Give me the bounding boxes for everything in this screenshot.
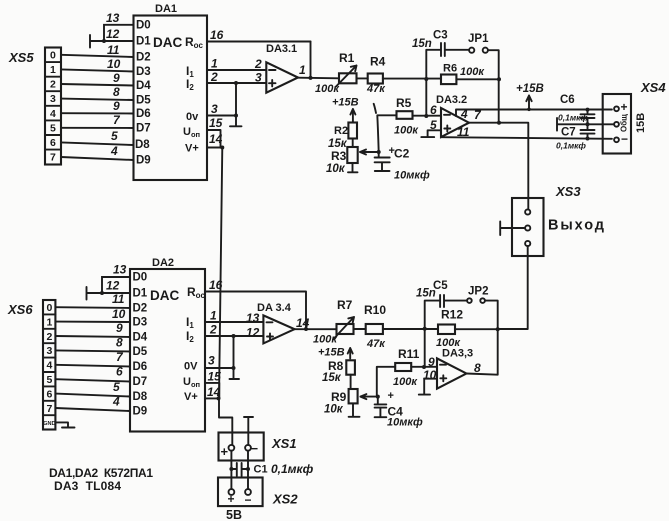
- svg-text:+: +: [221, 444, 229, 459]
- svg-text:DA1,DA2 К572ПА1: DA1,DA2 К572ПА1: [49, 466, 153, 480]
- svg-text:DA2: DA2: [152, 257, 174, 269]
- svg-text:10к: 10к: [326, 163, 346, 175]
- svg-text:DA3.2: DA3.2: [436, 94, 467, 106]
- svg-text:1: 1: [47, 316, 53, 328]
- svg-text:0v: 0v: [186, 111, 199, 123]
- svg-text:3: 3: [50, 93, 56, 105]
- svg-text:DA3,3: DA3,3: [442, 348, 473, 360]
- svg-text:16: 16: [209, 278, 223, 292]
- svg-text:JP2: JP2: [468, 286, 488, 298]
- svg-text:R2: R2: [334, 125, 348, 137]
- svg-text:+15В: +15В: [516, 83, 544, 95]
- svg-text:9: 9: [113, 71, 120, 85]
- svg-text:47к: 47к: [366, 338, 386, 350]
- svg-text:V+: V+: [185, 143, 199, 155]
- svg-text:100к: 100к: [394, 125, 419, 137]
- svg-text:XS1: XS1: [271, 436, 297, 451]
- svg-text:GND: GND: [43, 421, 55, 427]
- svg-text:0: 0: [50, 50, 56, 62]
- svg-text:DA1: DA1: [155, 3, 177, 15]
- svg-text:D4: D4: [136, 80, 151, 92]
- svg-text:C6: C6: [560, 94, 575, 106]
- svg-text:5: 5: [113, 380, 120, 394]
- svg-text:10: 10: [112, 307, 126, 321]
- svg-text:100к: 100к: [393, 376, 418, 388]
- svg-text:D3: D3: [133, 317, 148, 329]
- svg-text:10мкф: 10мкф: [394, 170, 430, 182]
- svg-text:−: −: [251, 441, 259, 456]
- svg-text:10к: 10к: [324, 404, 344, 416]
- svg-text:C1: C1: [254, 464, 268, 476]
- svg-text:D5: D5: [136, 95, 151, 107]
- svg-text:−: −: [621, 132, 628, 146]
- svg-text:JP1: JP1: [468, 33, 489, 45]
- svg-text:10мкф: 10мкф: [387, 417, 423, 429]
- svg-text:2: 2: [50, 79, 56, 91]
- svg-text:D1: D1: [136, 36, 151, 48]
- svg-text:+15В: +15В: [318, 347, 345, 359]
- svg-text:1: 1: [211, 57, 218, 71]
- svg-text:+: +: [621, 100, 628, 114]
- svg-text:100к: 100к: [460, 66, 485, 78]
- svg-text:D6: D6: [136, 108, 151, 120]
- svg-text:R11: R11: [398, 347, 420, 361]
- svg-text:100к: 100к: [315, 83, 340, 95]
- svg-text:R9: R9: [331, 390, 347, 404]
- svg-text:D5: D5: [133, 346, 148, 358]
- svg-text:XS4: XS4: [640, 80, 666, 95]
- svg-text:V+: V+: [184, 391, 198, 403]
- svg-text:+: +: [388, 390, 394, 402]
- svg-text:6: 6: [116, 365, 123, 379]
- svg-text:C2: C2: [394, 147, 410, 161]
- svg-text:2: 2: [209, 323, 217, 337]
- svg-text:D0: D0: [133, 272, 148, 284]
- svg-text:5: 5: [111, 129, 118, 143]
- svg-text:0: 0: [47, 302, 53, 314]
- svg-text:DAC: DAC: [153, 35, 182, 50]
- svg-text:100к: 100к: [313, 334, 338, 346]
- svg-text:0,1мкф: 0,1мкф: [271, 462, 314, 476]
- svg-text:12: 12: [106, 279, 120, 293]
- svg-text:13: 13: [246, 311, 260, 325]
- svg-text:D0: D0: [136, 20, 151, 32]
- svg-text:2: 2: [254, 57, 262, 71]
- svg-text:R12: R12: [441, 308, 463, 322]
- svg-text:47к: 47к: [366, 83, 386, 95]
- svg-text:7: 7: [50, 152, 56, 164]
- svg-text:D9: D9: [136, 155, 151, 167]
- svg-text:XS3: XS3: [555, 184, 581, 199]
- svg-text:15: 15: [208, 370, 222, 384]
- svg-text:DA3.1: DA3.1: [266, 43, 297, 55]
- svg-text:13: 13: [113, 263, 127, 277]
- svg-text:1: 1: [299, 63, 306, 77]
- svg-text:−: −: [245, 493, 252, 507]
- svg-text:9: 9: [428, 355, 435, 369]
- svg-text:R4: R4: [370, 55, 386, 69]
- svg-text:2: 2: [47, 331, 53, 343]
- svg-text:12: 12: [246, 326, 260, 340]
- svg-text:D2: D2: [133, 303, 148, 315]
- svg-text:4: 4: [112, 395, 120, 409]
- svg-text:1: 1: [50, 64, 56, 76]
- svg-text:R10: R10: [364, 303, 386, 317]
- svg-text:1: 1: [210, 309, 217, 323]
- svg-text:D1: D1: [133, 288, 148, 300]
- svg-text:5: 5: [50, 122, 56, 134]
- svg-text:C7: C7: [561, 127, 576, 139]
- svg-text:3: 3: [255, 71, 262, 85]
- svg-text:DAC: DAC: [150, 288, 179, 303]
- svg-text:D2: D2: [136, 52, 151, 64]
- svg-text:15n: 15n: [412, 38, 432, 50]
- svg-text:12: 12: [106, 27, 120, 41]
- svg-text:9: 9: [116, 321, 123, 335]
- svg-text:4: 4: [50, 108, 56, 120]
- svg-text:D8: D8: [133, 391, 148, 403]
- svg-text:3: 3: [47, 345, 53, 357]
- svg-text:5: 5: [47, 374, 53, 386]
- svg-text:10: 10: [107, 57, 121, 71]
- svg-text:DA3 TL084: DA3 TL084: [54, 479, 121, 493]
- svg-text:8: 8: [116, 336, 123, 350]
- svg-text:Выход: Выход: [548, 218, 604, 234]
- svg-text:+15В: +15В: [332, 97, 359, 109]
- svg-text:2: 2: [210, 70, 218, 84]
- svg-text:15n: 15n: [416, 288, 436, 300]
- svg-text:XS5: XS5: [8, 50, 34, 65]
- svg-text:XS2: XS2: [272, 492, 298, 507]
- svg-text:R7: R7: [337, 298, 353, 312]
- svg-text:8: 8: [113, 85, 120, 99]
- svg-text:Общ: Общ: [620, 114, 629, 132]
- svg-text:14: 14: [296, 316, 310, 330]
- svg-text:11: 11: [112, 292, 125, 306]
- svg-text:D7: D7: [133, 376, 148, 388]
- svg-text:R1: R1: [339, 51, 355, 65]
- svg-text:4: 4: [47, 360, 53, 372]
- svg-text:3: 3: [211, 102, 218, 116]
- svg-text:15: 15: [209, 116, 223, 130]
- svg-text:6: 6: [47, 388, 53, 400]
- svg-text:3: 3: [208, 354, 215, 368]
- svg-text:0,1мкф: 0,1мкф: [556, 141, 586, 151]
- svg-text:13: 13: [106, 11, 120, 25]
- svg-text:DA 3.4: DA 3.4: [257, 302, 292, 314]
- svg-text:15к: 15к: [322, 372, 342, 384]
- svg-text:R5: R5: [396, 96, 412, 110]
- svg-text:D9: D9: [133, 406, 148, 418]
- svg-text:R8: R8: [328, 359, 344, 373]
- svg-text:15В: 15В: [635, 113, 647, 133]
- svg-text:R6: R6: [443, 63, 457, 75]
- svg-text:5В: 5В: [226, 508, 242, 521]
- svg-text:9: 9: [113, 99, 120, 113]
- svg-text:D3: D3: [136, 66, 151, 78]
- svg-text:7: 7: [47, 403, 53, 415]
- svg-text:11: 11: [107, 43, 120, 57]
- svg-text:D6: D6: [133, 361, 148, 373]
- svg-text:4: 4: [110, 144, 118, 158]
- svg-text:D7: D7: [136, 123, 151, 135]
- svg-text:0V: 0V: [184, 361, 198, 373]
- svg-text:XS6: XS6: [7, 302, 33, 317]
- svg-text:6: 6: [50, 137, 56, 149]
- svg-text:C3: C3: [433, 30, 448, 42]
- svg-text:16: 16: [210, 28, 224, 42]
- svg-text:D8: D8: [135, 139, 150, 151]
- svg-text:D4: D4: [133, 332, 148, 344]
- svg-text:+: +: [228, 492, 235, 506]
- svg-text:0,1мкф: 0,1мкф: [558, 113, 588, 123]
- svg-text:R3: R3: [331, 149, 347, 163]
